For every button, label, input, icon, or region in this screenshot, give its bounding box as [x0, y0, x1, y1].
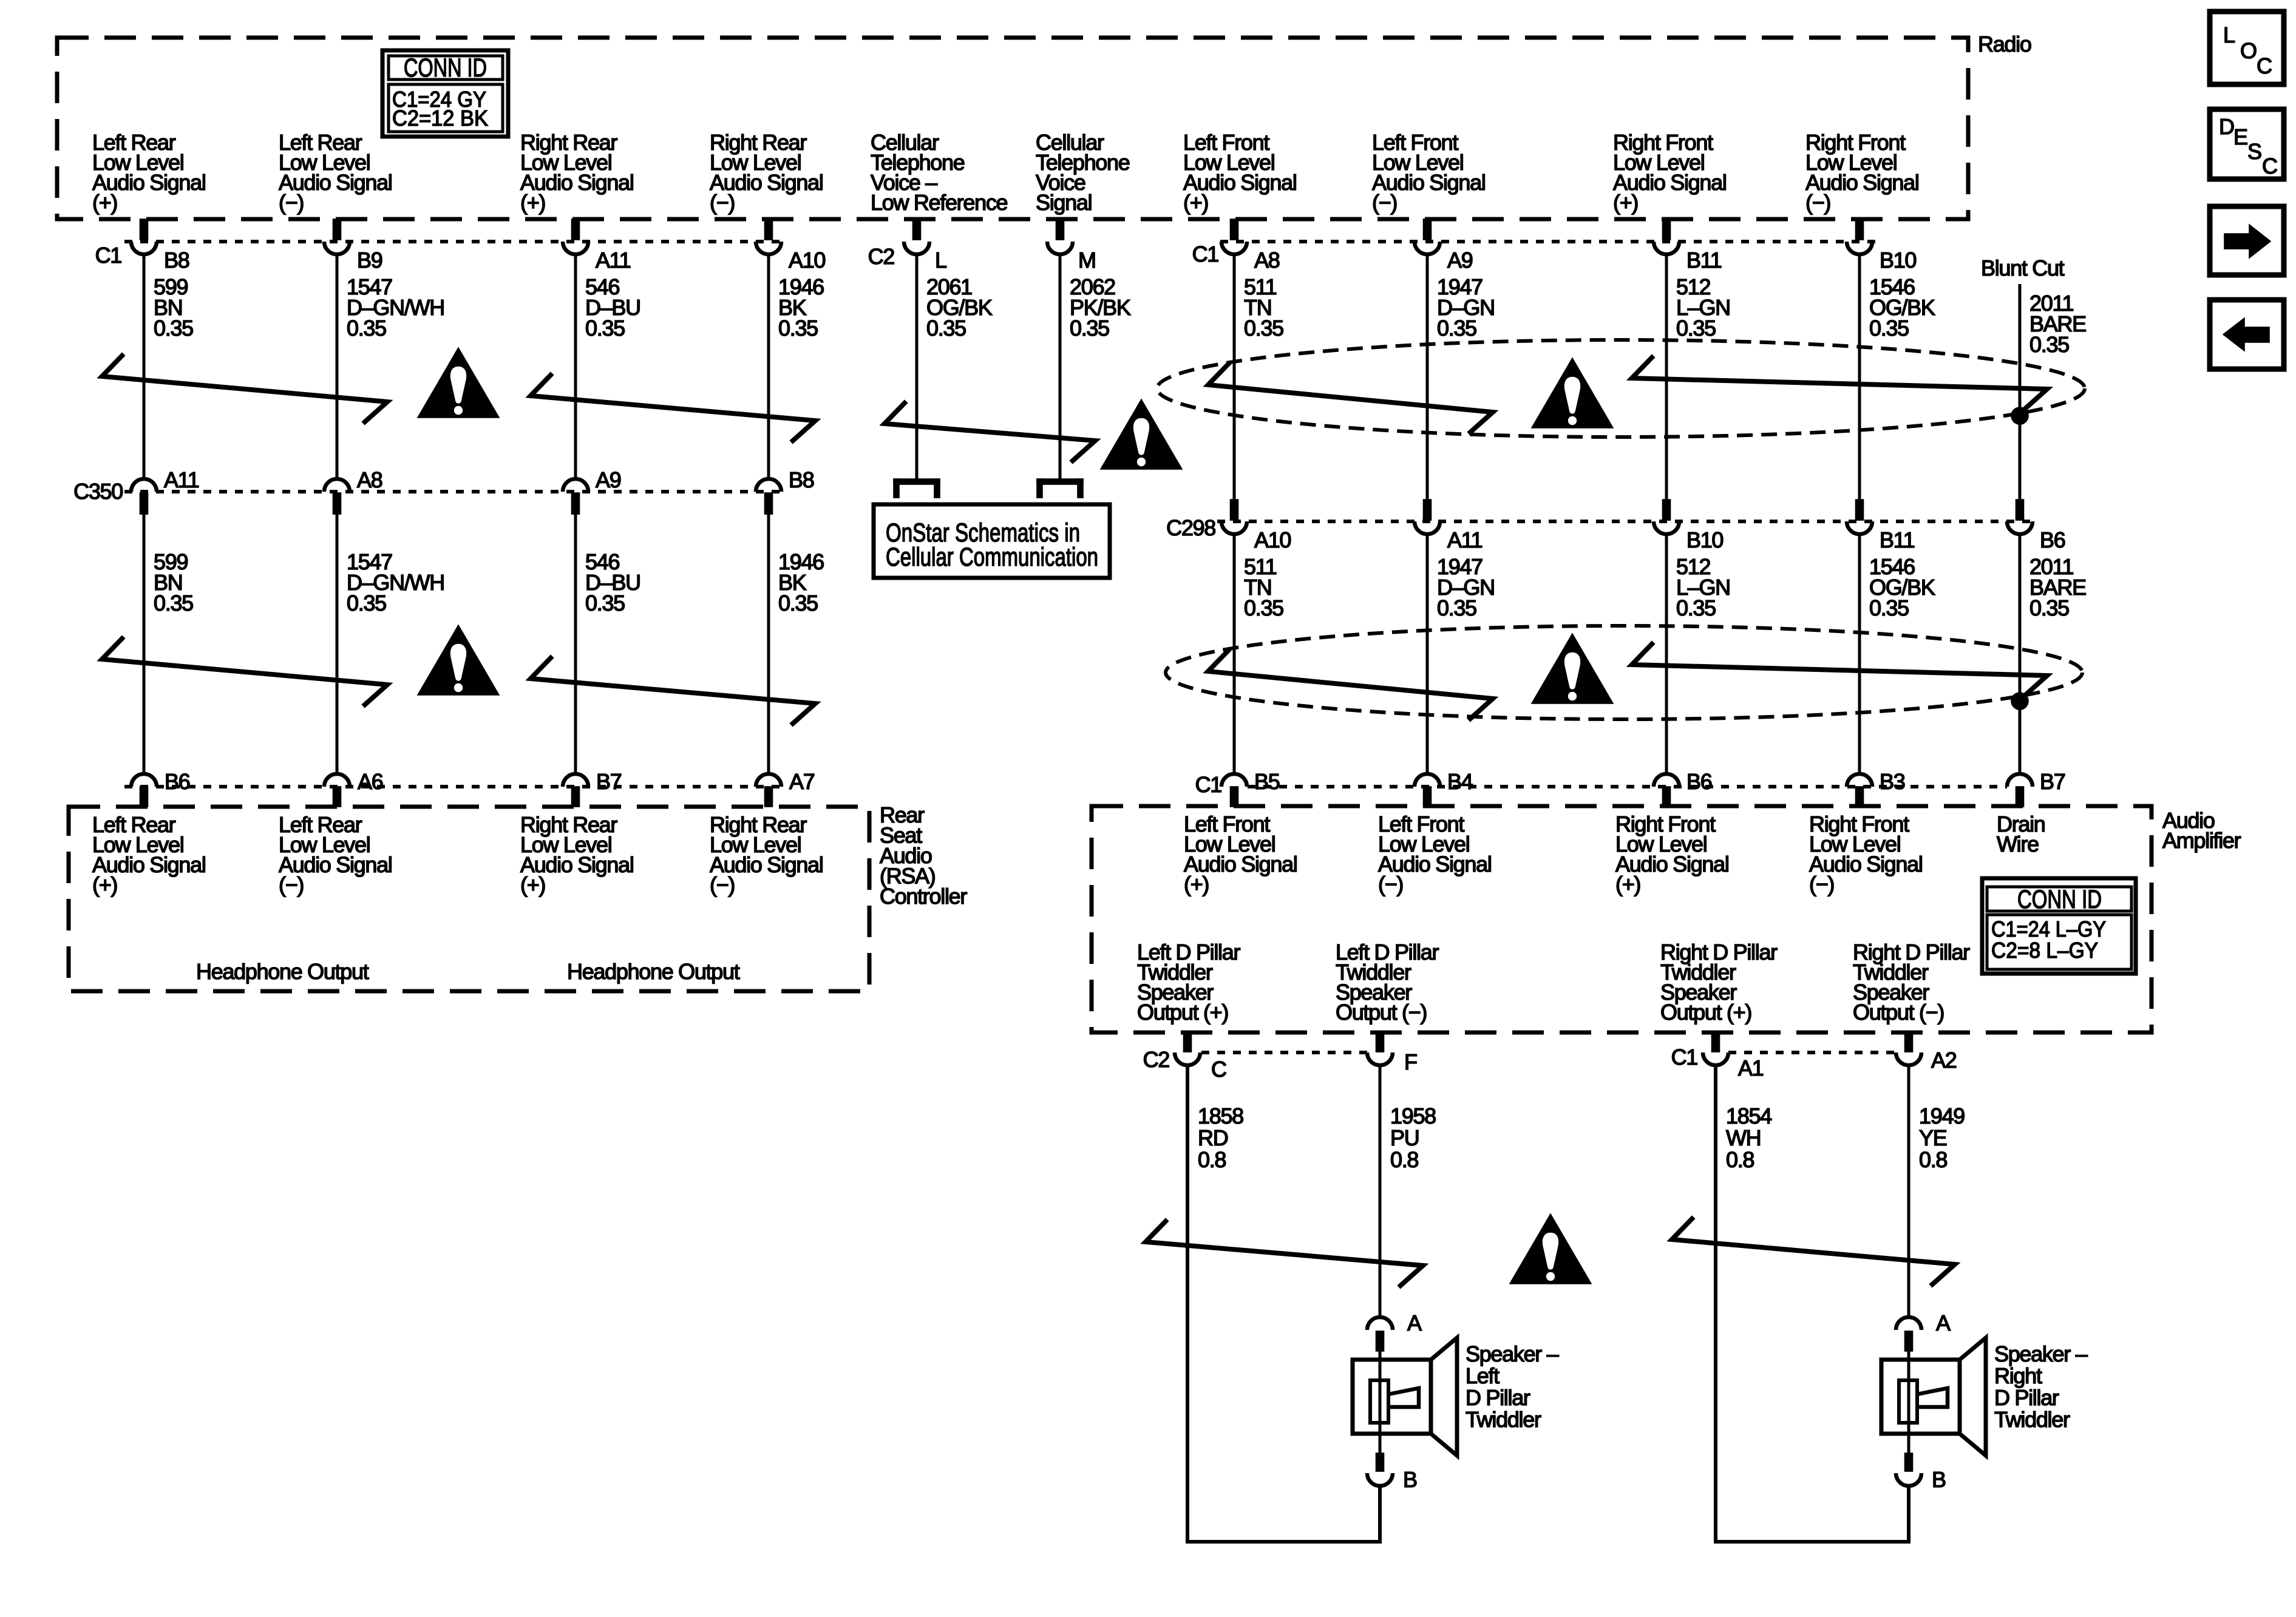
svg-text:A11: A11: [164, 467, 199, 492]
svg-text:A11: A11: [596, 248, 631, 273]
svg-text:(+): (+): [520, 190, 545, 215]
svg-text:D: D: [2219, 114, 2234, 139]
svg-text:Low Reference: Low Reference: [871, 190, 1008, 215]
svg-text:C2: C2: [868, 244, 895, 269]
svg-text:B3: B3: [1880, 769, 1905, 794]
svg-text:A8: A8: [357, 467, 382, 492]
svg-text:(−): (−): [1372, 190, 1397, 215]
svg-text:B11: B11: [1686, 248, 1722, 273]
svg-text:0.35: 0.35: [1869, 595, 1909, 620]
svg-text:0.35: 0.35: [926, 316, 966, 341]
svg-text:M: M: [1078, 248, 1096, 273]
svg-text:Cellular Communication: Cellular Communication: [886, 543, 1098, 572]
svg-text:Output (−): Output (−): [1853, 1000, 1944, 1025]
svg-text:B6: B6: [165, 769, 190, 794]
svg-text:B7: B7: [2040, 769, 2065, 794]
svg-text:A: A: [1936, 1310, 1951, 1335]
svg-text:(+): (+): [92, 190, 117, 215]
svg-text:C1: C1: [1195, 772, 1222, 797]
svg-text:C: C: [2257, 53, 2272, 78]
svg-text:Right: Right: [1994, 1363, 2042, 1388]
svg-text:B5: B5: [1254, 769, 1280, 794]
svg-text:(+): (+): [1183, 190, 1208, 215]
svg-text:B: B: [1403, 1467, 1417, 1492]
svg-text:C: C: [2262, 154, 2277, 178]
svg-text:1854: 1854: [1726, 1103, 1771, 1128]
svg-text:Amplifier: Amplifier: [2162, 828, 2241, 853]
svg-text:(−): (−): [279, 872, 304, 897]
svg-text:Output (+): Output (+): [1660, 1000, 1751, 1025]
svg-text:0.35: 0.35: [347, 316, 386, 341]
svg-text:0.35: 0.35: [154, 591, 193, 615]
svg-text:B6: B6: [2040, 527, 2065, 552]
svg-text:0.8: 0.8: [1726, 1147, 1754, 1172]
svg-text:A11: A11: [1447, 527, 1483, 552]
svg-text:0.35: 0.35: [1676, 316, 1716, 341]
svg-text:C2=12 BK: C2=12 BK: [392, 106, 488, 131]
svg-text:CONN ID: CONN ID: [404, 53, 487, 83]
svg-text:E: E: [2233, 124, 2247, 149]
svg-text:0.35: 0.35: [154, 316, 193, 341]
svg-text:0.35: 0.35: [2029, 595, 2069, 620]
svg-text:D Pillar: D Pillar: [1466, 1385, 1530, 1410]
svg-text:0.8: 0.8: [1198, 1147, 1226, 1172]
svg-text:Output (−): Output (−): [1336, 1000, 1427, 1025]
svg-text:Radio: Radio: [1978, 32, 2031, 56]
svg-text:0.35: 0.35: [1676, 595, 1716, 620]
svg-text:A9: A9: [596, 467, 621, 492]
svg-text:C2: C2: [1143, 1047, 1170, 1072]
svg-text:S: S: [2247, 139, 2261, 164]
svg-text:0.8: 0.8: [1390, 1147, 1418, 1172]
svg-text:Speaker –: Speaker –: [1994, 1341, 2088, 1366]
svg-text:0.35: 0.35: [347, 591, 386, 615]
svg-text:Left: Left: [1466, 1363, 1500, 1388]
svg-text:Headphone Output: Headphone Output: [196, 959, 369, 984]
svg-text:A8: A8: [1254, 248, 1280, 273]
svg-text:Twiddler: Twiddler: [1994, 1407, 2070, 1432]
svg-text:1958: 1958: [1390, 1103, 1436, 1128]
svg-text:C1: C1: [1671, 1045, 1698, 1070]
svg-text:(−): (−): [1805, 190, 1830, 215]
svg-text:A2: A2: [1931, 1048, 1957, 1073]
svg-text:0.35: 0.35: [778, 316, 818, 341]
svg-text:0.35: 0.35: [1244, 595, 1283, 620]
svg-text:B11: B11: [1880, 527, 1915, 552]
svg-text:(−): (−): [279, 190, 304, 215]
svg-text:B9: B9: [357, 248, 382, 273]
svg-text:O: O: [2240, 38, 2257, 63]
svg-text:L: L: [935, 248, 946, 273]
svg-text:Headphone Output: Headphone Output: [567, 959, 740, 984]
svg-text:0.35: 0.35: [778, 591, 818, 615]
svg-text:C298: C298: [1166, 515, 1215, 540]
svg-text:0.35: 0.35: [1869, 316, 1909, 341]
svg-text:(+): (+): [92, 872, 117, 897]
svg-text:B8: B8: [164, 248, 189, 273]
svg-text:C2=8 L–GY: C2=8 L–GY: [1991, 938, 2098, 963]
svg-text:0.35: 0.35: [1070, 316, 1109, 341]
svg-text:(+): (+): [1613, 190, 1638, 215]
svg-text:C: C: [1211, 1057, 1226, 1082]
svg-text:A: A: [1407, 1310, 1422, 1335]
svg-text:PU: PU: [1390, 1125, 1419, 1150]
svg-text:C1: C1: [95, 243, 122, 268]
svg-text:0.35: 0.35: [585, 591, 625, 615]
svg-text:C1: C1: [1192, 242, 1219, 266]
svg-text:RD: RD: [1198, 1125, 1228, 1150]
svg-text:A10: A10: [1254, 527, 1291, 552]
svg-text:1858: 1858: [1198, 1103, 1243, 1128]
svg-text:A7: A7: [789, 769, 815, 794]
svg-text:B10: B10: [1686, 527, 1723, 552]
svg-text:B6: B6: [1686, 769, 1712, 794]
svg-text:YE: YE: [1919, 1125, 1947, 1150]
svg-text:(−): (−): [1378, 872, 1403, 897]
svg-text:0.35: 0.35: [1437, 316, 1476, 341]
svg-text:B10: B10: [1880, 248, 1916, 273]
svg-text:A9: A9: [1447, 248, 1473, 273]
svg-text:B7: B7: [596, 769, 622, 794]
svg-text:0.35: 0.35: [1244, 316, 1283, 341]
svg-text:A1: A1: [1738, 1056, 1764, 1080]
svg-text:A10: A10: [789, 248, 825, 273]
svg-text:0.35: 0.35: [2029, 332, 2069, 357]
svg-text:(−): (−): [1809, 872, 1834, 897]
svg-text:1949: 1949: [1919, 1103, 1965, 1128]
svg-text:C350: C350: [73, 479, 123, 504]
svg-text:0.35: 0.35: [1437, 595, 1476, 620]
svg-text:Twiddler: Twiddler: [1466, 1407, 1541, 1432]
svg-text:(+): (+): [1184, 872, 1209, 897]
svg-text:0.35: 0.35: [585, 316, 625, 341]
svg-text:Controller: Controller: [880, 884, 967, 909]
svg-text:(+): (+): [1615, 872, 1640, 897]
svg-text:CONN ID: CONN ID: [2017, 885, 2102, 914]
svg-text:B8: B8: [789, 467, 814, 492]
svg-text:Signal: Signal: [1036, 190, 1092, 215]
svg-text:Wire: Wire: [1997, 832, 2039, 856]
svg-text:D Pillar: D Pillar: [1994, 1385, 2059, 1410]
svg-text:B: B: [1932, 1467, 1946, 1492]
svg-text:(−): (−): [710, 190, 735, 215]
svg-text:F: F: [1404, 1049, 1417, 1074]
svg-text:Output (+): Output (+): [1137, 1000, 1228, 1025]
svg-text:0.8: 0.8: [1919, 1147, 1947, 1172]
svg-text:WH: WH: [1726, 1125, 1761, 1150]
svg-text:L: L: [2223, 22, 2235, 47]
svg-text:B4: B4: [1447, 769, 1473, 794]
svg-text:A6: A6: [358, 769, 383, 794]
svg-text:Blunt Cut: Blunt Cut: [1981, 256, 2065, 280]
svg-text:Speaker –: Speaker –: [1466, 1341, 1559, 1366]
svg-text:(+): (+): [520, 872, 545, 897]
svg-text:(−): (−): [710, 872, 735, 897]
